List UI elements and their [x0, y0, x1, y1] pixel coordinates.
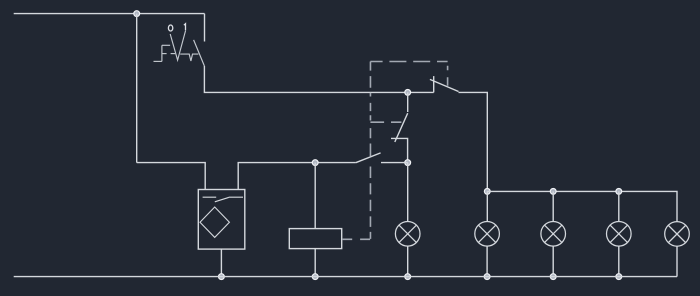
contact NO blade	[356, 153, 381, 163]
node junction bottom rail K2	[312, 274, 318, 280]
contact NC top-right fixed post	[433, 76, 435, 92]
wire bottom return rail	[14, 276, 677, 278]
switch S1 blade	[194, 40, 205, 66]
wire NO contact to node	[381, 162, 408, 164]
wire left branch vertical	[136, 14, 138, 163]
switch S1 selector 0-1 detent staircase	[154, 45, 176, 61]
switch S1 small v contact	[180, 54, 198, 61]
wire lamp distribution line	[487, 191, 677, 221]
wire lamp H2 to rail	[486, 246, 488, 277]
linkage dash drop to NC contact	[447, 66, 449, 86]
node junction above lamp H1	[405, 160, 411, 166]
wire node to lamp H1	[407, 163, 409, 222]
switch S1 position V under 0	[170, 31, 185, 61]
lamp H5	[665, 222, 690, 247]
wire lamp H4 to rail	[618, 246, 620, 277]
node junction bottom rail H3	[550, 274, 556, 280]
node junction bottom rail H2	[484, 274, 490, 280]
wire selector output down and right	[204, 66, 433, 92]
lamp H3	[541, 222, 566, 247]
wire lamp H1 to rail	[407, 246, 409, 277]
node junction lamp line H2	[484, 189, 490, 195]
linkage dashed mechanical connection	[343, 62, 448, 240]
node junction bottom rail K1	[219, 274, 225, 280]
wire impulse relay to bottom rail	[220, 249, 222, 277]
wire to lamp H2	[486, 191, 488, 221]
label 0	[168, 25, 172, 31]
wire coil branch down	[314, 163, 316, 229]
linkage dash stub to middle contact	[370, 121, 401, 123]
contact NC middle lower bar	[391, 138, 408, 162]
impulse relay K1 internal contact	[203, 197, 243, 202]
linkage dash riser	[369, 62, 371, 239]
wire top rail corner down to selector	[204, 14, 206, 42]
wire to lamp H3	[552, 191, 554, 221]
wire to lamp H4	[618, 191, 620, 221]
wire coil to bottom rail	[314, 249, 316, 277]
contact NC middle blade	[395, 113, 408, 142]
wire contact to lamp group	[459, 92, 488, 191]
contact NC middle upper wire	[407, 92, 409, 112]
lamp H2	[475, 222, 500, 247]
node junction lamp line H3	[550, 189, 556, 195]
node junction coil branch	[312, 160, 318, 166]
relay coil K2 box	[289, 229, 341, 249]
linkage dash top run	[370, 61, 447, 63]
impulse relay K1 diamond	[200, 207, 229, 237]
lamp H1	[395, 222, 420, 247]
node junction bottom rail H4	[616, 274, 622, 280]
lamp H4	[607, 222, 632, 247]
label 1	[184, 24, 186, 31]
wire left branch to impulse relay	[137, 163, 206, 190]
node junction on top rail	[134, 11, 140, 17]
linkage dash coil to riser	[343, 238, 371, 240]
contact NC top-right blade	[430, 79, 459, 91]
wire top supply rail	[14, 13, 205, 15]
wire lamp H5 to rail corner	[676, 246, 678, 276]
impulse relay K1 box	[198, 190, 245, 250]
node junction lamp line H4	[616, 189, 622, 195]
node junction at contact branch	[405, 90, 411, 96]
wire lamp H3 to rail	[552, 246, 554, 277]
node junction bottom rail H1	[405, 274, 411, 280]
wire control line right of impulse relay	[238, 163, 356, 190]
